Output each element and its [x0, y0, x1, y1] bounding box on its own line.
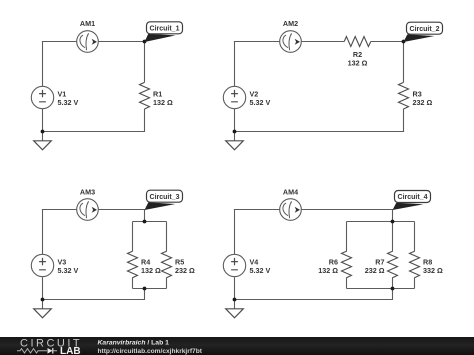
svg-text:5.32 V: 5.32 V	[250, 266, 271, 275]
svg-text:5.32 V: 5.32 V	[58, 98, 79, 107]
svg-text:AM3: AM3	[80, 188, 95, 197]
svg-text:Circuit_2: Circuit_2	[410, 26, 440, 33]
svg-text:Karanvirbraich / Lab 1: Karanvirbraich / Lab 1	[98, 340, 170, 347]
svg-text:Circuit_4: Circuit_4	[398, 194, 428, 201]
svg-text:http://circuitlab.com/cxjhkrkj: http://circuitlab.com/cxjhkrkjrf7bt	[98, 348, 203, 355]
svg-text:5.32 V: 5.32 V	[58, 266, 79, 275]
svg-text:Circuit_1: Circuit_1	[150, 26, 180, 33]
svg-text:LAB: LAB	[60, 346, 81, 355]
svg-text:232 Ω: 232 Ω	[175, 266, 195, 275]
svg-text:AM2: AM2	[283, 19, 298, 28]
svg-text:232 Ω: 232 Ω	[413, 98, 433, 107]
svg-text:132 Ω: 132 Ω	[318, 266, 338, 275]
svg-text:332 Ω: 332 Ω	[423, 266, 443, 275]
svg-text:132 Ω: 132 Ω	[153, 98, 173, 107]
svg-text:132 Ω: 132 Ω	[348, 58, 368, 67]
svg-text:132 Ω: 132 Ω	[141, 266, 161, 275]
svg-text:AM1: AM1	[80, 19, 95, 28]
svg-text:AM4: AM4	[283, 188, 298, 197]
svg-text:5.32 V: 5.32 V	[250, 98, 271, 107]
svg-text:Circuit_3: Circuit_3	[150, 194, 180, 201]
svg-text:232 Ω: 232 Ω	[365, 266, 385, 275]
